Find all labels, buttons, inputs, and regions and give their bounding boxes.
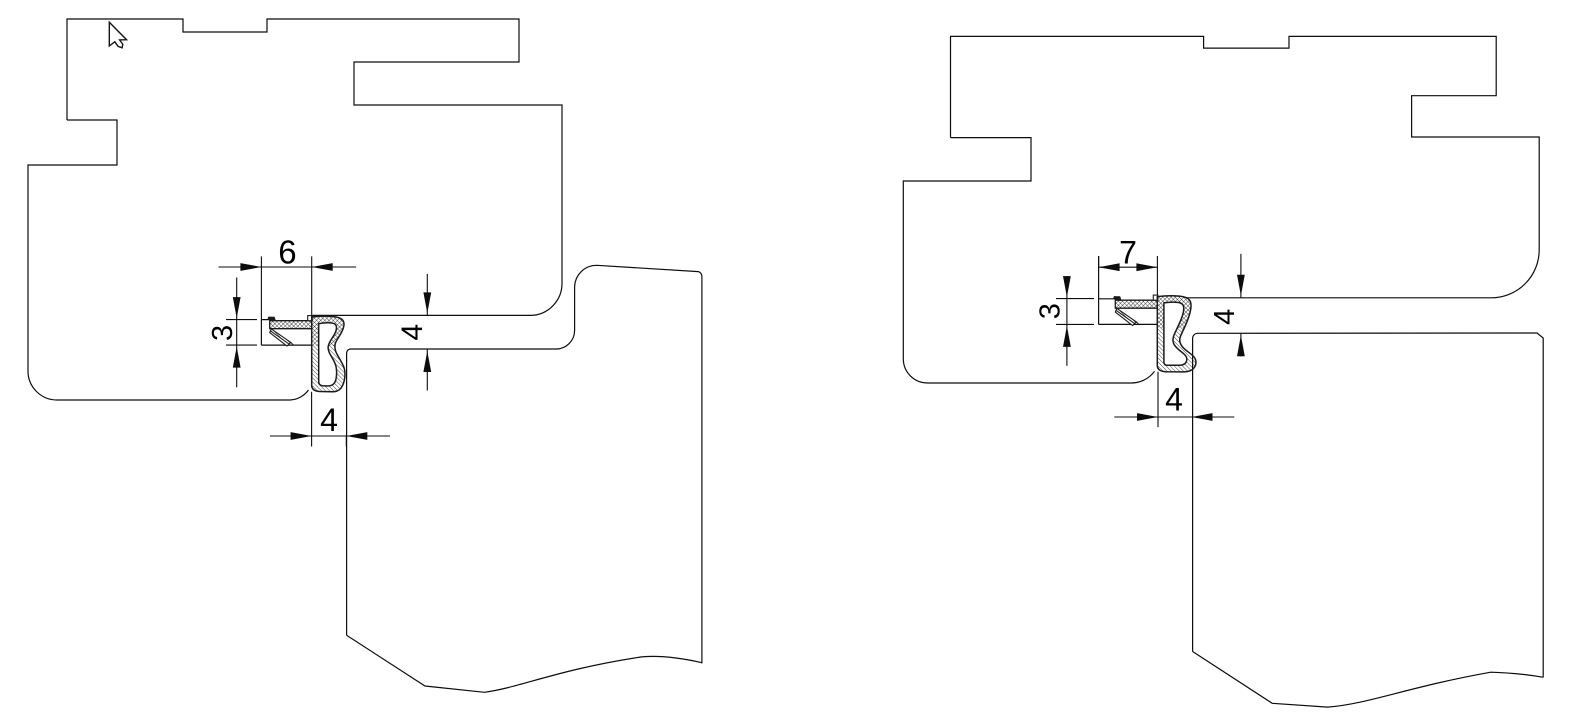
svg-text:6: 6: [278, 234, 296, 271]
svg-text:3: 3: [207, 325, 239, 341]
svg-text:4: 4: [320, 402, 338, 438]
svg-text:3: 3: [1034, 303, 1066, 319]
svg-text:4: 4: [396, 324, 429, 341]
svg-text:4: 4: [1165, 381, 1183, 417]
svg-text:7: 7: [1119, 234, 1137, 270]
svg-text:4: 4: [1209, 309, 1241, 325]
